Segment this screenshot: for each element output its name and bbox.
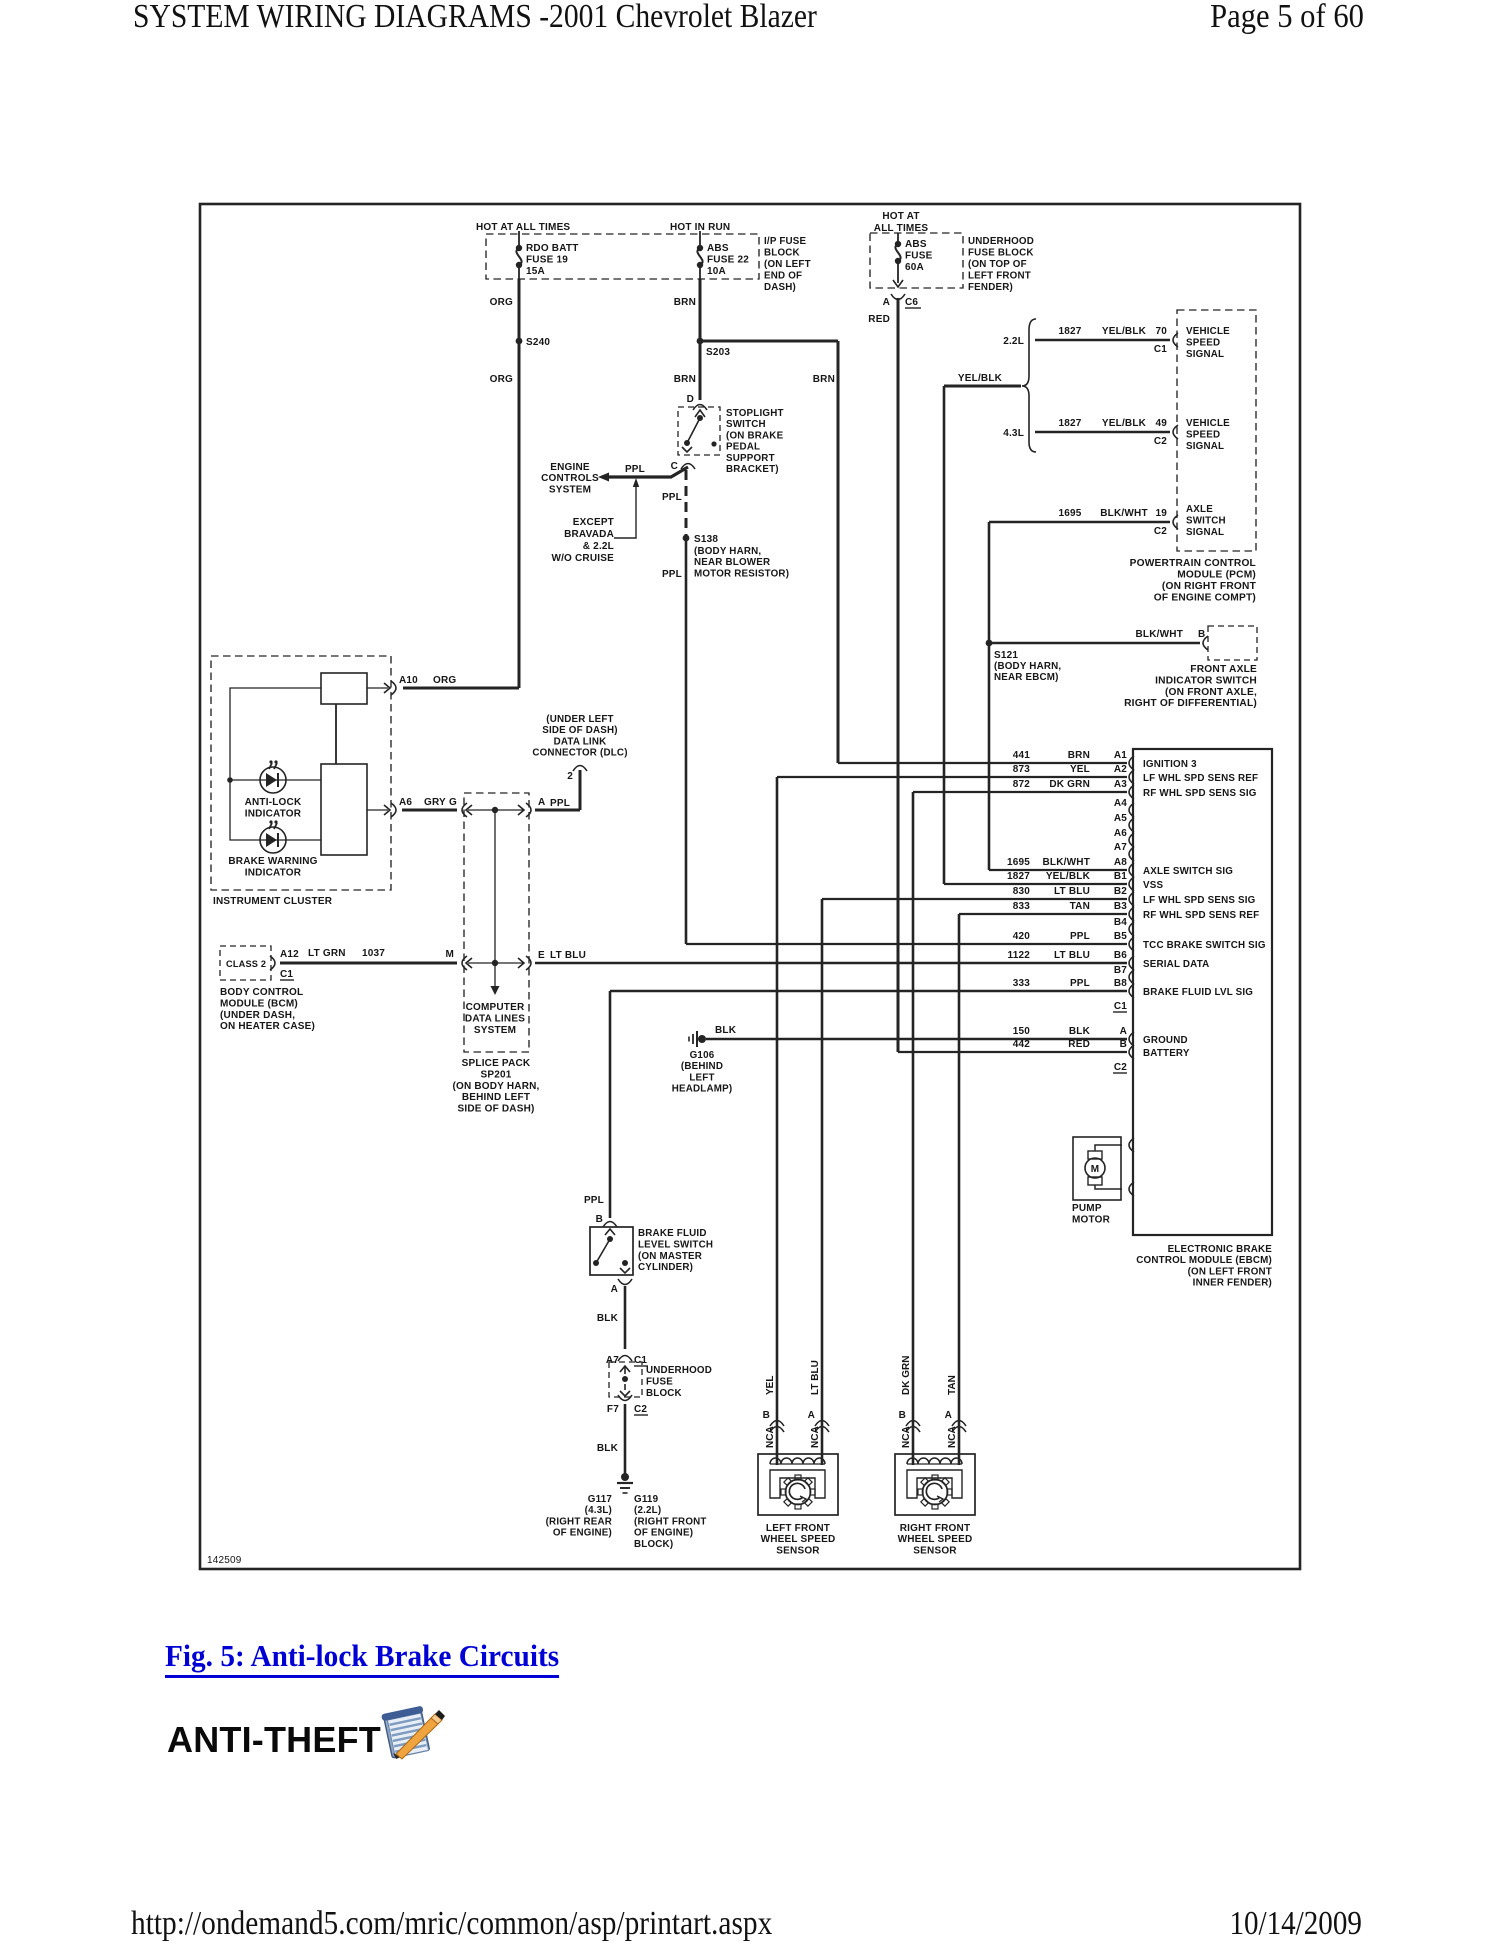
svg-text:PPL: PPL — [1070, 978, 1090, 989]
svg-text:TAN: TAN — [1070, 901, 1090, 912]
powertrain control module PCM (dashed box) — [1177, 310, 1256, 551]
svg-text:ELECTRONIC BRAKE: ELECTRONIC BRAKE — [1168, 1244, 1273, 1255]
svg-text:CONNECTOR (DLC): CONNECTOR (DLC) — [532, 748, 627, 759]
wire 1827 YEL/BLK 4.3L to PCM C2 pin 49 — [1035, 418, 1178, 447]
svg-text:A7: A7 — [606, 1355, 619, 1366]
svg-text:B8: B8 — [1114, 978, 1127, 989]
svg-text:DK GRN: DK GRN — [1049, 779, 1090, 790]
wire ORG from fuse 19 to instrument cluster A10 — [403, 279, 519, 688]
svg-text:BLOCK: BLOCK — [646, 1388, 682, 1399]
svg-text:SIGNAL: SIGNAL — [1186, 349, 1224, 360]
svg-text:(ON BRAKE: (ON BRAKE — [726, 430, 784, 441]
svg-text:(UNDER DASH,: (UNDER DASH, — [220, 1010, 295, 1021]
connector pin A10 ORG at cluster — [367, 675, 456, 695]
svg-text:RIGHT FRONT: RIGHT FRONT — [900, 1523, 971, 1534]
instrument cluster (dashed box) — [211, 656, 391, 890]
svg-text:BLK: BLK — [715, 1025, 737, 1036]
svg-text:END OF: END OF — [764, 271, 802, 282]
label INSTRUMENT CLUSTER — [213, 896, 333, 907]
svg-text:SENSOR: SENSOR — [776, 1545, 820, 1556]
EBCM pin B4 — [1114, 917, 1134, 936]
svg-text:(RIGHT FRONT: (RIGHT FRONT — [634, 1516, 707, 1527]
label ANTI-LOCK INDICATOR — [245, 797, 302, 819]
svg-text:S203: S203 — [706, 347, 730, 358]
svg-text:BLOCK: BLOCK — [764, 248, 800, 259]
svg-text:A3: A3 — [1114, 779, 1127, 790]
wire 333 PPL from EBCM B8 to brake fluid level switch — [610, 991, 1127, 1218]
svg-text:LT GRN: LT GRN — [308, 948, 346, 959]
connector pin A6 GRY at cluster — [367, 797, 457, 817]
svg-text:MOTOR: MOTOR — [1072, 1214, 1111, 1225]
I/P fuse block (dashed box) — [486, 234, 759, 279]
splice pack exit connector A PPL — [518, 797, 570, 817]
svg-text:YEL/BLK: YEL/BLK — [1102, 418, 1147, 429]
svg-text:B: B — [1198, 629, 1205, 640]
svg-text:B: B — [763, 1410, 770, 1421]
label I/P FUSE BLOCK location — [764, 236, 811, 293]
svg-text:(ON LEFT FRONT: (ON LEFT FRONT — [1188, 1266, 1272, 1277]
left front wheel speed sensor (box) — [758, 1454, 838, 1515]
svg-text:150: 150 — [1013, 1026, 1031, 1037]
svg-text:A1: A1 — [1114, 750, 1127, 761]
EBCM pin A1 wire 441 BRN — [1013, 750, 1197, 770]
right front wheel speed sensor label — [898, 1523, 973, 1556]
stoplight switch contacts — [682, 415, 717, 452]
label VEHICLE SPEED SIGNAL (4.3L) — [1186, 418, 1230, 452]
svg-text:NEAR EBCM): NEAR EBCM) — [994, 672, 1059, 683]
svg-text:RIGHT OF DIFFERENTIAL): RIGHT OF DIFFERENTIAL) — [1124, 698, 1257, 709]
splice pack entry connector G — [462, 803, 472, 817]
svg-text:SERIAL DATA: SERIAL DATA — [1143, 959, 1209, 970]
svg-text:C1: C1 — [1154, 344, 1167, 355]
EBCM pin A2 wire 873 YEL — [1013, 764, 1259, 784]
svg-text:NCA: NCA — [765, 1426, 776, 1448]
svg-text:B4: B4 — [1114, 917, 1127, 928]
svg-text:333: 333 — [1013, 978, 1031, 989]
svg-text:UNDERHOOD: UNDERHOOD — [646, 1365, 712, 1376]
svg-text:VEHICLE: VEHICLE — [1186, 418, 1230, 429]
label G119 location — [634, 1494, 707, 1550]
svg-text:GRY: GRY — [424, 797, 446, 808]
EBCM pin B wire 442 RED — [1013, 1039, 1190, 1059]
svg-text:FUSE: FUSE — [905, 251, 933, 262]
wire PPL from S138 to EBCM B5 — [686, 538, 1127, 944]
svg-text:(ON BODY HARN,: (ON BODY HARN, — [452, 1081, 539, 1092]
splice S121 — [986, 640, 1019, 661]
connector pin D of stoplight switch — [687, 394, 707, 417]
svg-text:SUPPORT: SUPPORT — [726, 453, 775, 464]
svg-text:AXLE: AXLE — [1186, 504, 1213, 515]
svg-text:HEADLAMP): HEADLAMP) — [672, 1084, 733, 1095]
EBCM pin B6 wire 1122 LT BLU — [1008, 950, 1210, 970]
svg-text:S240: S240 — [526, 337, 550, 348]
svg-text:G106: G106 — [690, 1050, 715, 1061]
label PPL at brake fluid switch — [584, 1195, 604, 1206]
wire RED from underhood fuse C6 to EBCM B — [898, 298, 1127, 1052]
EBCM pin B5 wire 420 PPL — [1013, 931, 1266, 951]
svg-text:FUSE 22: FUSE 22 — [707, 255, 749, 266]
splice S240 — [516, 337, 551, 348]
EBCM pin A6 — [1114, 828, 1134, 847]
svg-text:(ON FRONT AXLE,: (ON FRONT AXLE, — [1165, 687, 1257, 698]
svg-text:BRAKE FLUID: BRAKE FLUID — [638, 1228, 707, 1239]
label FRONT AXLE INDICATOR SWITCH location — [1124, 664, 1257, 709]
label BRN upper — [674, 297, 696, 308]
svg-text:(BODY HARN,: (BODY HARN, — [994, 661, 1061, 672]
right front wheel speed sensor coil and reluctor — [907, 1458, 962, 1509]
svg-text:C6: C6 — [905, 297, 918, 308]
svg-text:W/O CRUISE: W/O CRUISE — [551, 553, 614, 564]
RF sensor wire B DK GRN labels and inline connector — [899, 1356, 920, 1448]
wire 1695 BLK/WHT to PCM C2 pin 19 axle switch signal — [989, 508, 1178, 537]
svg-text:HOT AT ALL TIMES: HOT AT ALL TIMES — [476, 222, 570, 233]
svg-text:4.3L: 4.3L — [1003, 428, 1024, 439]
label HOT AT ALL TIMES (underhood) — [874, 211, 929, 234]
LF sensor wire A LT BLU labels and inline connector — [808, 1360, 829, 1448]
svg-text:VEHICLE: VEHICLE — [1186, 326, 1230, 337]
svg-text:INSTRUMENT CLUSTER: INSTRUMENT CLUSTER — [213, 896, 333, 907]
svg-text:SWITCH: SWITCH — [1186, 516, 1226, 527]
RF sensor wire A TAN labels and inline connector — [945, 1375, 966, 1448]
svg-text:A2: A2 — [1114, 764, 1127, 775]
svg-text:1122: 1122 — [1008, 950, 1031, 961]
svg-text:G117: G117 — [588, 1494, 613, 1505]
svg-text:C1: C1 — [280, 969, 293, 980]
svg-text:& 2.2L: & 2.2L — [583, 541, 614, 552]
svg-text:BRAVADA: BRAVADA — [564, 529, 614, 540]
svg-text:(BODY HARN,: (BODY HARN, — [694, 546, 761, 557]
svg-text:A: A — [808, 1410, 815, 1421]
svg-text:BLK/WHT: BLK/WHT — [1100, 508, 1148, 519]
note arrow EXCEPT BRAVADA & 2.2L W/O CRUISE — [614, 478, 639, 538]
connector pin A of brake fluid level switch — [611, 1279, 632, 1295]
svg-text:A: A — [538, 797, 545, 808]
svg-text:F7: F7 — [607, 1404, 619, 1415]
svg-text:OF ENGINE): OF ENGINE) — [553, 1528, 612, 1539]
diagram border frame — [200, 204, 1300, 1569]
engine option brace 2.2L/4.3L — [1022, 319, 1036, 452]
svg-text:B3: B3 — [1114, 901, 1127, 912]
fuse ABS FUSE 22 10A — [697, 231, 749, 279]
svg-text:CONTROL MODULE (EBCM): CONTROL MODULE (EBCM) — [1136, 1255, 1272, 1266]
svg-text:MODULE (PCM): MODULE (PCM) — [1177, 570, 1256, 581]
svg-text:YEL: YEL — [765, 1376, 776, 1395]
wire YEL/BLK feeder from VSS branch point — [944, 386, 1127, 884]
svg-text:PPL: PPL — [584, 1195, 604, 1206]
svg-text:MOTOR RESISTOR): MOTOR RESISTOR) — [694, 568, 789, 579]
label BLK above ground — [597, 1443, 619, 1454]
EBCM pin A7 — [1114, 842, 1134, 861]
EBCM connector label C2 — [1113, 1062, 1127, 1073]
svg-text:(ON RIGHT FRONT: (ON RIGHT FRONT — [1162, 581, 1257, 592]
connector pin C of stoplight switch — [671, 461, 695, 472]
svg-text:PPL: PPL — [625, 464, 645, 475]
EBCM pin A4 — [1114, 798, 1134, 817]
svg-text:SENSOR: SENSOR — [913, 1545, 957, 1556]
svg-text:PPL: PPL — [662, 569, 682, 580]
svg-text:OF ENGINE): OF ENGINE) — [634, 1528, 693, 1539]
wire 1122 LT BLU serial data from splice pack to EBCM B6 — [535, 962, 1127, 964]
pump motor M — [1073, 1137, 1134, 1200]
label PPL at engine controls — [625, 464, 645, 475]
connector C6 pin A — [883, 280, 921, 308]
svg-text:BRACKET): BRACKET) — [726, 464, 779, 475]
underhood fuse block top (dashed box) — [870, 233, 963, 288]
left front wheel speed sensor wires YEL and LT BLU — [777, 777, 1127, 1465]
svg-text:DK GRN: DK GRN — [901, 1356, 912, 1395]
label 2.2L — [1003, 336, 1024, 347]
svg-text:COMPUTER: COMPUTER — [466, 1002, 525, 1013]
cluster internal link — [335, 704, 337, 764]
cluster internal wiring — [227, 688, 321, 840]
svg-text:SWITCH: SWITCH — [726, 419, 766, 430]
svg-text:B: B — [1120, 1039, 1127, 1050]
connector A7 C1 at underhood fuse block — [606, 1355, 648, 1366]
splice pack internal wire upper with junction — [468, 807, 524, 813]
EBCM pin B3 wire 833 TAN — [1013, 901, 1260, 921]
svg-text:NCA: NCA — [810, 1426, 821, 1448]
brake fluid level switch (box) — [590, 1227, 633, 1275]
svg-text:(ON TOP OF: (ON TOP OF — [968, 259, 1027, 270]
label VEHICLE SPEED SIGNAL (2.2L) — [1186, 326, 1230, 360]
svg-text:PPL: PPL — [662, 492, 682, 503]
ground G106 — [689, 1031, 706, 1047]
svg-text:GROUND: GROUND — [1143, 1035, 1188, 1046]
svg-text:OF ENGINE COMPT): OF ENGINE COMPT) — [1154, 593, 1256, 604]
svg-text:DATA LINK: DATA LINK — [554, 736, 607, 747]
svg-text:B: B — [899, 1410, 906, 1421]
svg-text:ABS: ABS — [707, 243, 729, 254]
EBCM pin A wire 150 BLK — [1013, 1026, 1188, 1046]
svg-text:(BEHIND: (BEHIND — [681, 1061, 723, 1072]
svg-text:ALL TIMES: ALL TIMES — [874, 223, 929, 234]
label BRAKE WARNING INDICATOR — [228, 856, 317, 878]
svg-text:EXCEPT: EXCEPT — [573, 517, 614, 528]
svg-text:B5: B5 — [1114, 931, 1127, 942]
label RED — [868, 314, 890, 325]
label YEL/BLK feeder — [958, 373, 1003, 384]
svg-text:C2: C2 — [1154, 436, 1167, 447]
page header title — [133, 0, 817, 36]
svg-text:RED: RED — [1068, 1039, 1090, 1050]
svg-text:ON HEATER CASE): ON HEATER CASE) — [220, 1021, 315, 1032]
underhood fuse block lower (dashed box) — [609, 1362, 642, 1397]
svg-text:YEL/BLK: YEL/BLK — [1102, 326, 1147, 337]
svg-text:PEDAL: PEDAL — [726, 442, 760, 453]
EBCM connector label C1 — [1113, 1001, 1127, 1012]
splice S138 — [683, 534, 719, 545]
svg-text:BATTERY: BATTERY — [1143, 1048, 1190, 1059]
svg-text:DATA LINES: DATA LINES — [465, 1013, 525, 1024]
svg-text:A12: A12 — [280, 949, 299, 960]
label PPL below S138 — [662, 569, 682, 580]
svg-text:ENGINE: ENGINE — [550, 462, 590, 473]
svg-text:CLASS 2: CLASS 2 — [226, 959, 266, 969]
svg-text:INDICATOR: INDICATOR — [245, 867, 302, 878]
svg-text:INDICATOR SWITCH: INDICATOR SWITCH — [1155, 675, 1257, 686]
svg-text:MODULE (BCM): MODULE (BCM) — [220, 998, 298, 1009]
wire BLK from switch A to underhood fuse block — [624, 1286, 627, 1349]
wire 150 BLK from G106 to EBCM A — [706, 1025, 1127, 1039]
EBCM pin B2 wire 830 LT BLU — [1013, 886, 1256, 906]
label S121 location BODY HARN NEAR EBCM — [994, 661, 1061, 683]
LF sensor wire B YEL labels and inline connector — [763, 1376, 784, 1448]
svg-text:A4: A4 — [1114, 798, 1127, 809]
EBCM pin A3 wire 872 DK GRN — [1013, 779, 1257, 799]
label HOT AT ALL TIMES — [476, 222, 570, 233]
svg-text:LT BLU: LT BLU — [810, 1360, 821, 1395]
fuse RDO BATT FUSE 19 15A — [516, 231, 579, 279]
svg-text:INNER FENDER): INNER FENDER) — [1193, 1278, 1272, 1289]
data link connector DLC pin 2 — [567, 766, 587, 783]
label BLK above fuse block — [597, 1313, 619, 1324]
svg-text:WHEEL SPEED: WHEEL SPEED — [898, 1534, 973, 1545]
svg-text:B2: B2 — [1114, 886, 1127, 897]
label DATA LINK CONNECTOR (DLC) location — [532, 714, 627, 759]
svg-text:(2.2L): (2.2L) — [634, 1505, 661, 1516]
svg-text:IGNITION 3: IGNITION 3 — [1143, 759, 1197, 770]
svg-text:A: A — [883, 297, 890, 308]
footer date — [1230, 1905, 1362, 1943]
svg-text:441: 441 — [1013, 750, 1031, 761]
svg-text:49: 49 — [1155, 418, 1167, 429]
svg-text:B7: B7 — [1114, 965, 1127, 976]
svg-text:RF WHL SPD SENS REF: RF WHL SPD SENS REF — [1143, 910, 1259, 921]
svg-text:15A: 15A — [526, 266, 545, 277]
splice pack internal wire lower with junction — [468, 962, 524, 964]
EBCM pin B1 wire 1827 YEL/BLK — [1007, 871, 1164, 891]
svg-text:BLK/WHT: BLK/WHT — [1043, 857, 1091, 868]
svg-text:NCA: NCA — [947, 1426, 958, 1448]
svg-text:CONTROLS: CONTROLS — [541, 473, 599, 484]
svg-text:10A: 10A — [707, 266, 726, 277]
label G117 location — [546, 1494, 613, 1539]
wire BLK/WHT to front axle indicator switch pin B — [989, 629, 1208, 650]
svg-text:C: C — [671, 461, 678, 472]
svg-text:PUMP: PUMP — [1072, 1203, 1102, 1214]
diagram number 142509 — [207, 1555, 242, 1566]
svg-text:PPL: PPL — [550, 798, 570, 809]
svg-text:873: 873 — [1013, 764, 1031, 775]
svg-text:ORG: ORG — [490, 297, 513, 308]
wire 1037 LT GRN from BCM to splice pack M — [280, 948, 457, 963]
svg-text:A6: A6 — [399, 797, 412, 808]
splice S203 — [697, 338, 731, 358]
label POWERTRAIN CONTROL MODULE (PCM) location — [1130, 558, 1257, 604]
svg-text:1827: 1827 — [1058, 326, 1081, 337]
svg-text:S138: S138 — [694, 534, 718, 545]
wire 1827 YEL/BLK 2.2L to PCM C1 pin 70 — [1035, 326, 1178, 355]
front axle indicator switch (dashed box) — [1208, 626, 1257, 660]
svg-text:60A: 60A — [905, 262, 924, 273]
svg-text:D: D — [687, 394, 694, 405]
left front wheel speed sensor coil and reluctor — [770, 1458, 825, 1509]
svg-text:G: G — [449, 797, 457, 808]
svg-text:BLOCK): BLOCK) — [634, 1539, 673, 1550]
wire PPL dashed segment to S138 — [685, 470, 688, 538]
svg-text:C2: C2 — [1114, 1062, 1127, 1073]
label HOT IN RUN — [670, 222, 730, 233]
svg-text:BLK/WHT: BLK/WHT — [1136, 629, 1184, 640]
figure caption link — [165, 1638, 559, 1678]
connector pin A12 C1 at BCM — [270, 949, 299, 980]
stoplight switch (dashed box) — [678, 407, 720, 455]
label COMPUTER DATA LINES SYSTEM — [465, 1002, 525, 1036]
svg-text:AXLE SWITCH SIG: AXLE SWITCH SIG — [1143, 866, 1233, 877]
splice pack exit connector E LT BLU — [518, 950, 586, 970]
svg-text:STOPLIGHT: STOPLIGHT — [726, 408, 784, 419]
svg-text:SYSTEM: SYSTEM — [474, 1025, 516, 1036]
svg-text:BLK: BLK — [597, 1443, 619, 1454]
svg-text:SIDE OF DASH): SIDE OF DASH) — [542, 725, 618, 736]
svg-text:SIDE OF DASH): SIDE OF DASH) — [457, 1104, 534, 1115]
svg-text:A7: A7 — [1114, 842, 1127, 853]
label ORG lower — [490, 374, 513, 385]
svg-text:TAN: TAN — [947, 1375, 958, 1395]
connector pin B of brake fluid level switch — [596, 1214, 617, 1227]
label G106 location BEHIND LEFT HEADLAMP — [672, 1050, 733, 1095]
EBCM pin B7 — [1114, 965, 1134, 984]
ground G117 G119 — [617, 1473, 633, 1493]
label BRN right branch — [813, 374, 835, 385]
svg-text:C2: C2 — [1154, 526, 1167, 537]
svg-text:LF WHL SPD SENS SIG: LF WHL SPD SENS SIG — [1143, 895, 1256, 906]
wire BRN from fuse 22 to stoplight switch and EBCM A1 — [700, 279, 1127, 763]
svg-text:RDO BATT: RDO BATT — [526, 243, 579, 254]
svg-text:A: A — [945, 1410, 952, 1421]
splice pack internal vertical wire to computer data lines system — [491, 810, 500, 995]
svg-text:BEHIND LEFT: BEHIND LEFT — [462, 1092, 530, 1103]
label EXCEPT BRAVADA & 2.2L W/O CRUISE — [551, 517, 614, 564]
svg-text:WHEEL SPEED: WHEEL SPEED — [761, 1534, 836, 1545]
svg-text:B6: B6 — [1114, 950, 1127, 961]
page number — [1210, 0, 1364, 36]
wire GRY from cluster A6 to splice pack — [402, 809, 457, 812]
svg-text:SYSTEM: SYSTEM — [549, 484, 591, 495]
left front wheel speed sensor label — [761, 1523, 836, 1556]
svg-text:PPL: PPL — [1070, 931, 1090, 942]
svg-text:DASH): DASH) — [764, 282, 796, 293]
right front wheel speed sensor wires DK GRN and TAN — [913, 792, 1127, 1465]
label STOPLIGHT SWITCH location — [726, 408, 784, 475]
wire BLK from fuse block to ground G117/G119 — [624, 1404, 627, 1477]
svg-text:CYLINDER): CYLINDER) — [638, 1262, 693, 1273]
svg-text:FUSE BLOCK: FUSE BLOCK — [968, 248, 1034, 259]
svg-text:LT BLU: LT BLU — [1054, 886, 1090, 897]
svg-text:SPEED: SPEED — [1186, 430, 1220, 441]
svg-text:B1: B1 — [1114, 871, 1127, 882]
svg-text:FUSE: FUSE — [646, 1376, 673, 1387]
svg-text:A: A — [611, 1284, 618, 1295]
cluster internal resistor block top — [321, 673, 367, 704]
svg-text:YEL/BLK: YEL/BLK — [958, 373, 1003, 384]
svg-text:SPLICE PACK: SPLICE PACK — [462, 1058, 531, 1069]
svg-text:BRN: BRN — [674, 374, 696, 385]
svg-text:ABS: ABS — [905, 239, 927, 250]
svg-text:S121: S121 — [994, 650, 1018, 661]
svg-text:SIGNAL: SIGNAL — [1186, 527, 1224, 538]
svg-text:ANTI-LOCK: ANTI-LOCK — [245, 797, 302, 808]
label PPL above S138 — [662, 492, 682, 503]
svg-text:BODY CONTROL: BODY CONTROL — [220, 987, 303, 998]
svg-text:LT BLU: LT BLU — [550, 950, 586, 961]
brake fluid level switch contacts — [593, 1229, 630, 1273]
svg-text:B: B — [596, 1214, 603, 1225]
svg-text:M: M — [445, 949, 454, 960]
BCM CLASS 2 (dashed box) — [220, 946, 271, 980]
svg-text:ORG: ORG — [433, 675, 456, 686]
label BRAKE FLUID LEVEL SWITCH location — [638, 1228, 713, 1273]
